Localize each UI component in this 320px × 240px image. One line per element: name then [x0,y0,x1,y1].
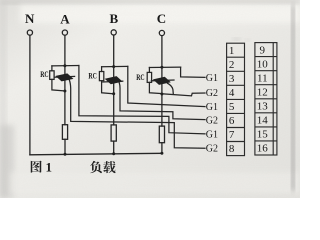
wire module 2 gate lead to terminal row 6 [119,83,205,120]
terminal B circle [111,30,116,35]
wire B terminal to module 2 top [113,35,115,66]
terminal strip right column outline (terminals 9-16) [255,43,277,155]
node load R2 bus junction [112,152,115,155]
bottom-left shading [0,125,14,198]
wire load R1 to bus [64,139,66,154]
node module 2 bottom junction [112,92,115,95]
wire module 2 RC branch upper [101,67,103,72]
wire module 1 main vertical through triac [64,66,66,91]
wire module 2 G1 takeoff (frame right) to terminal row 3 [128,66,205,106]
node module 1 top junction [63,64,66,67]
wire C terminal to module 3 top [161,36,163,68]
triac V1 through line [55,75,75,78]
paper background [0,0,300,198]
top edge shading [0,0,300,4]
node module 2 top junction [112,65,115,68]
triac V3 (phase C) body [154,77,170,84]
resistor RC3 snubber body [147,72,151,82]
wire module 1 RC branch upper [51,66,53,71]
node module 3 top junction [160,66,163,69]
wire module 1 bottom node to load R1 [64,91,66,125]
wire module 2 bottom node to load R2 [113,94,115,125]
load resistor R2 body [111,125,116,141]
wire load R3 to bus [161,143,163,154]
terminal strip numbers 1-8 [229,45,235,155]
load resistor R1 body [62,125,67,140]
wire module 3 gate lead joining G2 wire [168,83,174,94]
terminal strip scan smudge [233,38,240,40]
triac V3 through line [151,79,174,82]
load resistor R3 body [159,126,164,143]
wire module 1 G1 takeoff (frame right) to terminal row 5 [79,66,205,134]
wire module 1 RC branch lower [52,79,65,91]
resistor RC1 snubber body [50,71,54,80]
node module 1 bottom junction [63,90,66,93]
top highlight band [20,5,300,23]
caption load (chars 负载 as paths) [90,161,102,173]
wire module 2 frame top [102,65,128,67]
wire load R2 to bus [113,141,115,154]
left edge shading [0,0,6,198]
scan grain overlay [0,0,300,198]
wire bottom bus (load common) [30,153,162,155]
triac V1 (phase A) body [56,74,72,81]
resistor RC2 snubber body [99,72,103,81]
terminal strip numbers 9-16 [257,44,269,154]
wire module 3 main vertical through triac [161,67,163,94]
wire module 2 RC branch lower [102,81,114,94]
wire module 3 bottom node to terminal row 4 (G2) [162,93,205,96]
wire A terminal to module 1 top [64,35,66,65]
wire module 1 gate lead to terminal row 8 [69,80,205,148]
wire module 3 frame top [149,66,180,68]
terminal C circle [159,30,164,35]
wire module 2 main vertical through triac [113,67,115,94]
wire module 1 frame top [52,65,79,67]
node load R3 bus junction [160,152,163,155]
wire module 3 G1 takeoff (frame right) to terminal row 3 [181,67,205,77]
wire module 3 RC branch lower [149,82,162,93]
right scan streak [292,5,295,191]
node load R1 bus junction [64,153,67,156]
node module 3 bottom junction [160,93,163,96]
terminal strip right column row lines [255,56,277,58]
wire module 3 bottom node to load R3 [161,94,163,126]
bottom edge light band [10,172,300,194]
terminal strip right column inner line [272,43,274,155]
wire N vertical to bottom bus [29,35,31,154]
triac V2 (phase B) body [106,77,122,84]
caption figure 1 (char 图 as path) [31,161,42,173]
terminal N circle [27,30,32,35]
terminal A circle [62,30,67,35]
terminal strip left column row lines [227,56,245,58]
triac V2 through line [103,80,123,83]
terminal strip left column outline (terminals 1-8) [227,43,245,155]
wire module 3 RC branch upper [148,68,150,73]
